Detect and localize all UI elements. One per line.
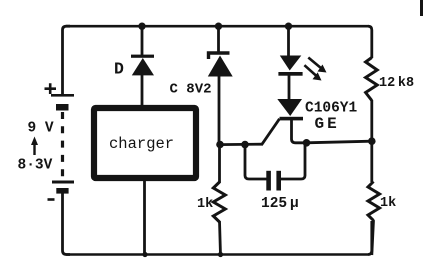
node: junction top rail / diode D [138,23,145,30]
wire: zener to gate node [218,75,221,145]
wire: SCR cathode lead [292,119,308,143]
wire: LED branch from top rail [287,26,290,56]
node: junction R3 / bottom rail [218,252,223,257]
charger box [94,108,196,178]
label: - polarity [48,198,55,201]
svg-text:8·3V: 8·3V [18,158,53,174]
wire: SCR gate lead [262,119,280,144]
node: junction charger lead / bottom rail [142,252,147,257]
svg-text:9 V: 9 V [28,121,54,137]
arrow: voltage range indicator [33,141,35,155]
capacitor C1 left plate [266,171,271,191]
diode D triangle [132,58,154,75]
wire: R1 to divider node [370,100,373,142]
svg-text:1k: 1k [197,197,213,212]
node: junction top rail / zener [215,23,222,30]
wire: top rail to zener ZD1 [217,26,220,52]
svg-text:GE: GE [315,115,340,133]
battery B1 negative short bar [56,188,68,194]
LED D2 triangle [280,56,302,71]
battery B1 negative plate [52,181,74,184]
battery B1 positive plate [51,94,74,97]
thyristor Q1 C106Y1 anode triangle [277,99,302,116]
svg-text:D: D [114,60,124,79]
decorative page mark top right [420,0,423,16]
wire: bottom rail [66,253,368,256]
battery B1 positive short bar [56,104,69,111]
node: junction top rail / LED [285,23,292,30]
wire: divider node to R2 [372,140,374,255]
zener diode ZD1 triangle [208,56,233,77]
svg-text:C 8V2: C 8V2 [170,82,212,98]
svg-text:1k: 1k [380,196,396,211]
capacitor C1 left lead [245,145,267,180]
node: junction cathode wire / capacitor right [303,139,311,147]
wire: diode D to charger box [141,74,144,108]
resistor R3 1k left zigzag [213,182,225,222]
wire: battery positive lead (left rail top) [63,26,71,95]
wire: LED to SCR anode [288,74,291,100]
LED D2 cathode bar [278,72,302,76]
diode D cathode bar [131,55,154,58]
node: junction gate wire / capacitor left [241,141,249,149]
thyristor Q1 cathode bar [280,117,304,121]
wire: right rail lower [368,221,372,255]
capacitor C1 right lead [281,145,305,180]
capacitor C1 right plate [276,171,281,191]
label: + polarity [45,83,57,94]
wire: charger box to bottom rail [143,178,146,255]
svg-text:12 k8: 12 k8 [379,76,414,91]
svg-text:125 µ: 125 µ [261,196,299,212]
wire: top rail [66,25,368,28]
arrow: LED light emission lower [304,65,316,76]
wire: gate node to R3 and R3 to bottom rail [220,144,221,255]
battery B1 dashed cell line [61,112,64,177]
svg-text:charger: charger [109,135,174,153]
arrow: LED light emission upper [308,58,321,69]
wire: gate node horizontal (zener to gate) [219,143,263,146]
wire: right rail upper [368,26,372,58]
node: junction zener line / gate wire [216,141,224,149]
resistor R1 12k8 zigzag [366,58,378,101]
zener diode ZD1 cathode bar with hook [209,53,230,59]
node: junction right rail / divider [368,137,376,145]
wire: cathode node to right rail [306,141,372,143]
wire: battery negative lead (left rail bottom) [63,192,71,255]
resistor R2 1k right zigzag [368,182,380,221]
wire: top rail to diode D [141,26,144,56]
